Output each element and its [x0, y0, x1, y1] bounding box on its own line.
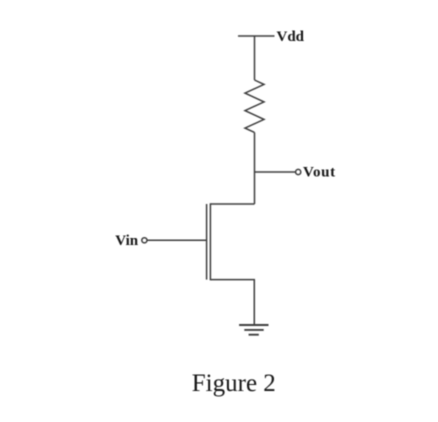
transistor M1 gate bar [206, 204, 208, 280]
terminal circle Vout [296, 169, 301, 174]
wire source [210, 280, 254, 325]
wire gate [147, 239, 206, 241]
svg-text:Vdd: Vdd [277, 29, 305, 45]
resistor R1 (drain load) [245, 80, 264, 132]
wire resistor bottom to Vout node [254, 132, 256, 172]
svg-text:Figure 2: Figure 2 [192, 370, 276, 397]
wire drain [210, 203, 254, 205]
wire Vdd to resistor top [254, 36, 256, 80]
svg-text:Vout: Vout [303, 165, 336, 181]
power rail Vdd bar [238, 35, 275, 37]
wire Vout stub [255, 171, 296, 173]
transistor M1 channel bar [209, 203, 211, 280]
ground [239, 325, 268, 335]
terminal circle Vin [142, 238, 147, 243]
svg-text:Vin: Vin [115, 233, 138, 249]
wire Vout node to drain corner [254, 172, 256, 204]
